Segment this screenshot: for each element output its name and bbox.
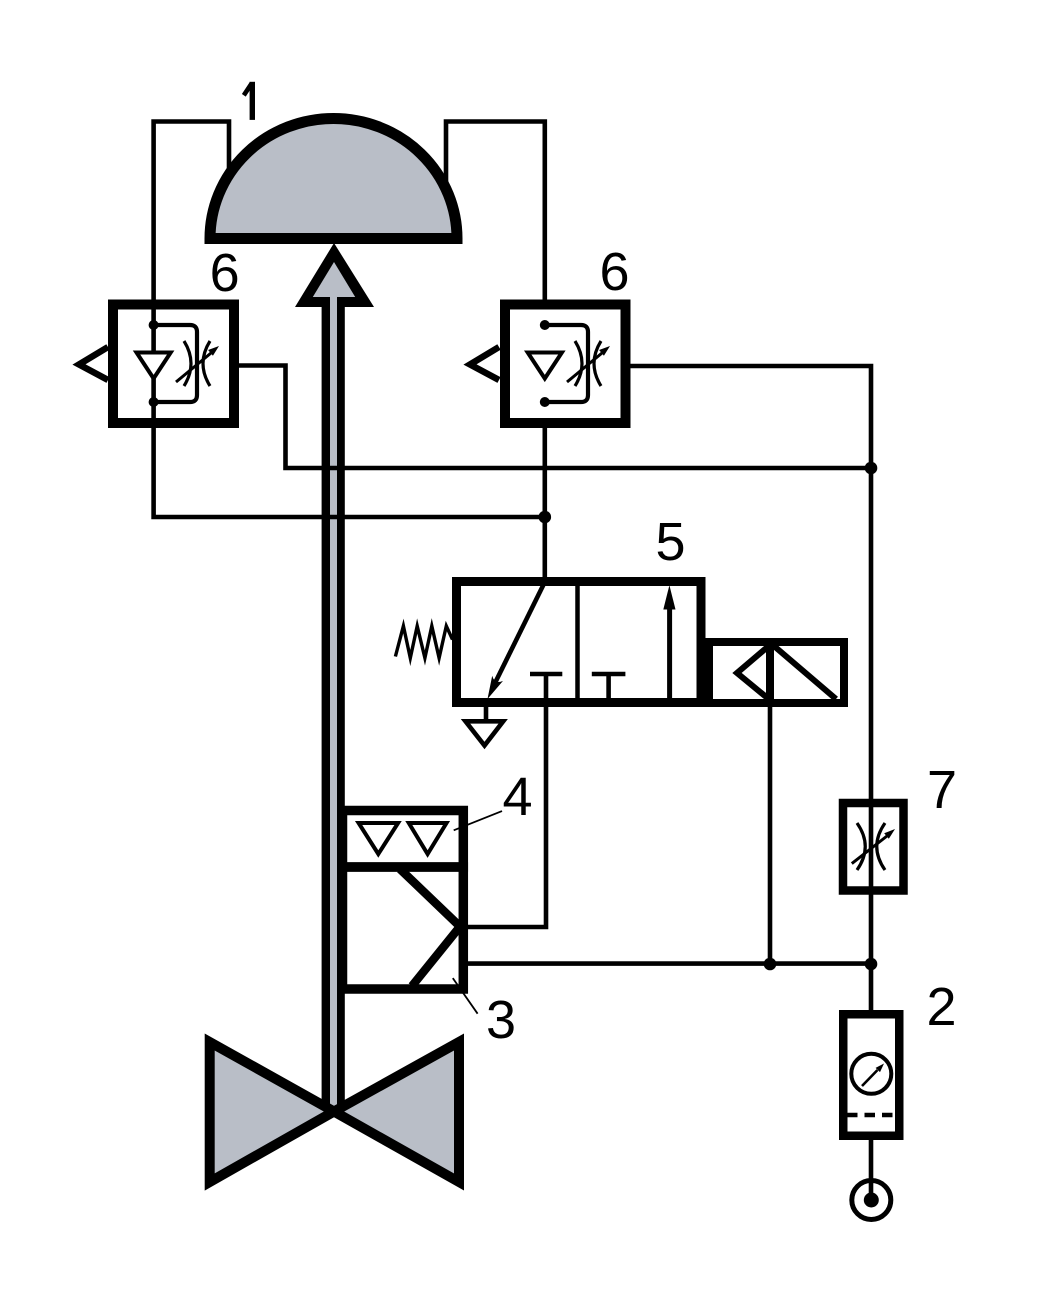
throttle 7: [843, 803, 904, 891]
leader line 3: [453, 978, 478, 1014]
valve 5 blocked port T right: [592, 674, 626, 703]
label 1: [244, 82, 253, 120]
wire: right flow valve bottom to valve 5: [542, 428, 547, 577]
node A junction dot: [539, 511, 552, 524]
source circle: [852, 1181, 891, 1220]
wire: left flow valve output to node B: [239, 366, 871, 469]
wire left: dome top-left down through flow valve to junction: [154, 122, 545, 518]
svg-text:6: 6: [599, 242, 629, 302]
leader line 4: [454, 811, 502, 830]
spring: [395, 626, 452, 658]
valve 5 body: [457, 581, 702, 703]
solenoid coil: [709, 638, 844, 707]
node C junction dot: [764, 958, 777, 971]
svg-text:6: 6: [210, 243, 240, 303]
wire: booster 3 lower port to supply node: [467, 961, 871, 966]
pressure regulator 2: [843, 1014, 899, 1136]
wire right: dome top-right down to right flow valve: [446, 122, 545, 301]
svg-text:4: 4: [502, 767, 532, 827]
valve 5 switching arrow: [488, 582, 545, 699]
valve 5 exhaust: [466, 707, 504, 746]
svg-text:7: 7: [927, 760, 957, 820]
flow control valve 6 right box: [470, 305, 626, 424]
flow control valve 6 left box: [79, 305, 234, 424]
positioner 4 box: [343, 811, 464, 868]
svg-text:5: 5: [655, 512, 685, 572]
wire: regulator 2 to source circle: [869, 1140, 874, 1198]
node B junction dot: [865, 462, 878, 475]
valve 5 flow arrow up: [663, 585, 675, 702]
wire: right flow valve output down through throttle 7 to regulator 2: [630, 366, 871, 1010]
booster 3 box: [343, 867, 464, 989]
svg-text:2: 2: [926, 977, 956, 1037]
valve 5 blocked port T left: [530, 672, 562, 677]
control valve body (bowtie): [210, 1042, 459, 1182]
wire: solenoid down to supply line: [768, 707, 773, 964]
node D junction dot: [865, 958, 878, 971]
stem: [322, 303, 345, 1112]
svg-text:3: 3: [486, 990, 516, 1050]
stem arrow: [295, 243, 374, 309]
wire: valve 5 port down to booster 3: [467, 674, 546, 927]
actuator dome 1: [210, 119, 457, 239]
